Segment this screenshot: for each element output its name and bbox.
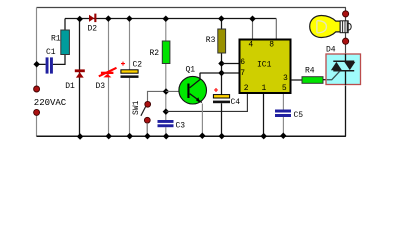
wire R2/C3 branch — [165, 19, 167, 137]
svg-text:C4: C4 — [231, 98, 241, 107]
pin 4 — [248, 40, 253, 49]
svg-text:R4: R4 — [305, 67, 315, 76]
svg-text:7: 7 — [240, 69, 245, 78]
node D3 bottom — [105, 133, 112, 140]
capacitor C5 — [275, 110, 291, 118]
svg-text:5: 5 — [282, 84, 287, 93]
node R2 top — [163, 16, 170, 23]
label D3 — [96, 82, 106, 91]
label IC1 — [257, 61, 272, 70]
wire C2 branch — [129, 19, 131, 137]
svg-text:C5: C5 — [294, 111, 304, 120]
terminal lamp bottom — [343, 38, 349, 44]
node pin6 junction — [218, 60, 225, 67]
svg-text:D2: D2 — [88, 25, 98, 34]
wire D1 branch — [79, 19, 81, 137]
label R1 — [51, 35, 61, 44]
wire pin5 wire — [282, 94, 284, 136]
svg-text:SW1: SW1 — [132, 100, 141, 115]
node C3 bottom — [163, 133, 170, 140]
pin 8 — [269, 40, 274, 49]
node pin5 bottom — [280, 133, 287, 140]
triac D4 — [326, 54, 361, 85]
node SW1 bottom — [144, 133, 151, 140]
label C5 — [294, 111, 304, 120]
svg-text:C3: C3 — [176, 122, 186, 131]
svg-text:Q1: Q1 — [186, 66, 196, 75]
svg-text:D3: D3 — [96, 82, 106, 91]
label C2 — [133, 61, 143, 70]
wire D3 branch — [108, 19, 110, 137]
resistor R4 — [302, 77, 323, 84]
label R4 — [305, 67, 315, 76]
svg-text:1: 1 — [262, 84, 267, 93]
wire pin8 wire — [275, 19, 277, 40]
wire R3/C4 branch — [221, 19, 223, 137]
pin 1 — [262, 84, 267, 93]
svg-text:R2: R2 — [150, 49, 160, 58]
wire C1/R1 branch — [37, 19, 66, 65]
label 220VAC — [34, 98, 67, 108]
node D1 top — [76, 16, 83, 23]
svg-text:D1: D1 — [65, 82, 75, 91]
pin 5 — [282, 84, 287, 93]
node trigger junction — [163, 108, 170, 115]
svg-text:6: 6 — [240, 58, 245, 67]
wire left AC line upper — [36, 8, 38, 87]
label D1 — [65, 82, 75, 91]
wire base wire — [166, 90, 188, 92]
svg-text:D4: D4 — [326, 46, 336, 55]
node C4 bottom rail — [218, 133, 225, 140]
node C1 junction — [33, 61, 40, 68]
wire right vertical (lamp/triac branch) — [345, 8, 347, 137]
lamp — [310, 15, 352, 37]
wire left AC line lower — [36, 116, 38, 137]
wire pin3 wire — [291, 79, 302, 81]
terminal lamp top — [343, 11, 349, 17]
svg-text:C1: C1 — [46, 48, 56, 57]
op-amp U1 / IC1 555 timer — [240, 40, 291, 94]
label R2 — [150, 49, 160, 58]
wire switch branch — [148, 91, 166, 101]
node pin1 bottom — [260, 133, 267, 140]
label D2 — [88, 25, 98, 34]
svg-text:4: 4 — [248, 40, 253, 49]
svg-text:3: 3 — [283, 74, 288, 83]
capacitor C3 — [158, 120, 174, 127]
capacitor C1 — [46, 57, 53, 73]
svg-text:IC1: IC1 — [257, 61, 272, 70]
resistor R2 — [162, 41, 170, 64]
svg-text:2: 2 — [244, 84, 249, 93]
node C2 bottom — [126, 133, 133, 140]
label C4 — [231, 98, 241, 107]
pin 6 — [240, 58, 245, 67]
pin 7 — [240, 69, 245, 78]
terminal AC bottom — [34, 109, 40, 115]
wire top rail — [37, 7, 346, 9]
diode D2 — [89, 14, 96, 23]
wire switch to rail — [146, 123, 148, 137]
label R3 — [206, 36, 216, 45]
label C3 — [176, 122, 186, 131]
label D4 — [326, 46, 336, 55]
wire gate wire — [323, 79, 328, 81]
label C1 — [46, 48, 56, 57]
wire bottom rail — [37, 135, 346, 137]
wire pin7 wire — [222, 72, 240, 74]
label SW1 — [132, 100, 141, 115]
node R3 top — [218, 15, 225, 22]
wire pin6 wire — [222, 63, 240, 65]
node emitter bottom — [199, 133, 206, 140]
svg-text:220VAC: 220VAC — [34, 98, 67, 108]
wire pin4 wire — [252, 19, 254, 40]
resistor R1 — [61, 30, 70, 55]
capacitor C2 (electrolytic) — [121, 62, 139, 78]
node pin4 — [249, 16, 256, 23]
transistor Q1 — [179, 73, 207, 104]
node pin7 junction — [218, 70, 225, 77]
label Q1 — [186, 66, 196, 75]
wire collector wire — [200, 72, 222, 74]
svg-text:8: 8 — [269, 40, 274, 49]
wire pin1 wire — [263, 94, 265, 136]
capacitor C4 (electrolytic) — [213, 88, 230, 103]
zener diode D3 — [99, 68, 117, 78]
wire trigger wire to pin2 — [166, 94, 248, 111]
pin 3 — [283, 74, 288, 83]
switch SW1 — [141, 101, 151, 123]
wire inner top rail — [65, 18, 276, 20]
terminal AC top — [34, 86, 40, 92]
resistor R3 — [218, 29, 226, 53]
pin 2 — [244, 84, 249, 93]
node D1 bottom — [77, 133, 84, 140]
wire emitter drop — [201, 104, 203, 137]
svg-text:C2: C2 — [133, 61, 143, 70]
node base junction — [163, 88, 170, 95]
node C2 top — [126, 15, 133, 22]
node D3 top — [105, 15, 112, 22]
svg-text:R3: R3 — [206, 36, 216, 45]
diode D1 — [75, 69, 85, 77]
svg-text:R1: R1 — [51, 35, 61, 44]
